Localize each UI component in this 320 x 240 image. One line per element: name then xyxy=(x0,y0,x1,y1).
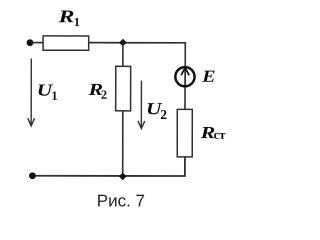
caption Рис. 7 xyxy=(97,191,145,210)
wire: source E down to Rct xyxy=(184,87,186,109)
resistor R1 xyxy=(43,6,89,50)
node A: top junction of middle branch xyxy=(119,39,127,47)
voltage arrow U2 xyxy=(138,81,167,129)
svg-text:2: 2 xyxy=(101,88,107,102)
svg-text:Рис. 7: Рис. 7 xyxy=(97,191,145,210)
resistor Rct xyxy=(177,109,226,157)
svg-text:2: 2 xyxy=(160,107,167,122)
node: bottom-left input terminal xyxy=(29,172,36,179)
resistor R2 xyxy=(87,66,130,111)
node B: bottom junction of middle branch xyxy=(119,173,127,181)
svg-text:ст: ст xyxy=(214,128,227,142)
svg-text:1: 1 xyxy=(74,15,80,29)
wire: top rail corner down to source E xyxy=(184,42,186,67)
wire: junction A down to R2 xyxy=(122,43,124,67)
EMF source E xyxy=(175,67,215,87)
svg-text:R: R xyxy=(57,6,74,26)
wire: R2 down to bottom junction xyxy=(122,111,124,176)
wire: top-left terminal to R1 xyxy=(31,42,43,44)
svg-text:E: E xyxy=(201,67,215,86)
wire: Rct down and bottom rail to left terminal xyxy=(32,157,185,176)
svg-text:1: 1 xyxy=(51,89,57,103)
node: top-left input terminal xyxy=(27,39,34,46)
wire: R1 to top-right corner xyxy=(89,42,186,44)
voltage arrow U1 xyxy=(28,58,58,125)
